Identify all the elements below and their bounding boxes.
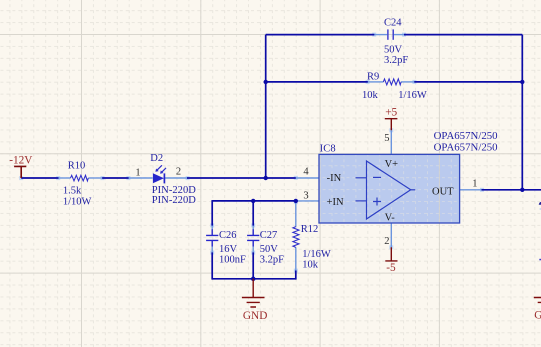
svg-text:50V: 50V	[384, 45, 403, 56]
svg-text:5: 5	[384, 133, 389, 144]
pin leads (light blue)	[58, 35, 482, 271]
diode D2	[135, 153, 196, 206]
svg-text:V+: V+	[385, 159, 399, 170]
svg-text:OUT: OUT	[432, 186, 454, 197]
capacitor C24	[384, 17, 408, 66]
wire R9 net	[266, 81, 523, 83]
svg-text:R12: R12	[301, 224, 319, 235]
svg-text:+5: +5	[385, 106, 397, 118]
svg-text:50V: 50V	[260, 244, 279, 255]
svg-text:R10: R10	[68, 161, 86, 172]
node junction C27 top	[251, 199, 255, 203]
svg-text:C27: C27	[260, 230, 278, 241]
wire R12 branch	[295, 201, 297, 280]
node junction R9-left	[264, 80, 268, 84]
wire right vertical	[521, 35, 523, 190]
svg-text:-5: -5	[386, 262, 396, 274]
wire left vertical	[265, 35, 267, 178]
power -5	[385, 247, 397, 274]
svg-text:D2: D2	[150, 153, 163, 164]
svg-text:10k: 10k	[302, 259, 319, 270]
node junction R9-right	[520, 80, 524, 84]
power +5	[385, 106, 398, 130]
svg-text:2: 2	[176, 167, 181, 178]
wire +IN rail	[212, 200, 296, 202]
svg-text:+IN: +IN	[327, 197, 344, 208]
resistor R10	[63, 161, 92, 208]
pin hotspot squares	[19, 33, 484, 281]
svg-text:10k: 10k	[362, 90, 379, 101]
svg-text:-12V: -12V	[9, 155, 33, 167]
clipped ground at right edge	[534, 298, 541, 322]
node junction R12 top	[294, 199, 298, 203]
svg-text:1.5k: 1.5k	[63, 186, 82, 197]
svg-text:2: 2	[384, 236, 389, 247]
svg-text:100nF: 100nF	[219, 255, 246, 266]
svg-text:1: 1	[472, 179, 477, 190]
wire C26 branch	[211, 200, 213, 280]
svg-text:4: 4	[303, 166, 309, 177]
wire top C24 net	[266, 34, 523, 36]
svg-text:-IN: -IN	[327, 173, 342, 184]
svg-text:GND: GND	[534, 310, 541, 322]
wire input net	[21, 177, 296, 179]
resistor R12	[293, 224, 331, 270]
wire bottom rail	[212, 278, 296, 280]
svg-text:C24: C24	[384, 17, 402, 28]
svg-text:1: 1	[135, 167, 140, 178]
wire C27 branch	[252, 201, 254, 279]
svg-text:OPA657N/250: OPA657N/250	[434, 131, 498, 142]
power -12V	[9, 155, 33, 178]
node junction output	[520, 188, 524, 192]
svg-text:C26: C26	[219, 230, 237, 241]
resistor R9	[362, 72, 427, 101]
ground GND	[242, 279, 267, 322]
svg-text:1/16W: 1/16W	[398, 90, 427, 101]
svg-text:3.2pF: 3.2pF	[260, 255, 284, 266]
svg-text:3.2pF: 3.2pF	[384, 55, 408, 66]
svg-text:16V: 16V	[219, 244, 238, 255]
svg-text:V-: V-	[385, 212, 396, 223]
svg-text:OPA657N/250: OPA657N/250	[434, 142, 498, 153]
wire output net	[482, 189, 541, 191]
svg-text:PIN-220D: PIN-220D	[152, 195, 197, 206]
capacitor C26	[206, 229, 246, 265]
node junction input	[264, 176, 268, 180]
op-amp U1 IC8	[303, 131, 497, 247]
svg-text:GND: GND	[243, 310, 267, 322]
node junction GND rail	[251, 277, 255, 281]
capacitor C27	[247, 229, 284, 265]
svg-text:3: 3	[303, 190, 308, 201]
svg-text:1/10W: 1/10W	[63, 196, 92, 207]
svg-text:R9: R9	[367, 72, 379, 83]
clipped symbol fragments at right edge	[539, 202, 541, 260]
svg-text:IC8: IC8	[320, 143, 336, 154]
